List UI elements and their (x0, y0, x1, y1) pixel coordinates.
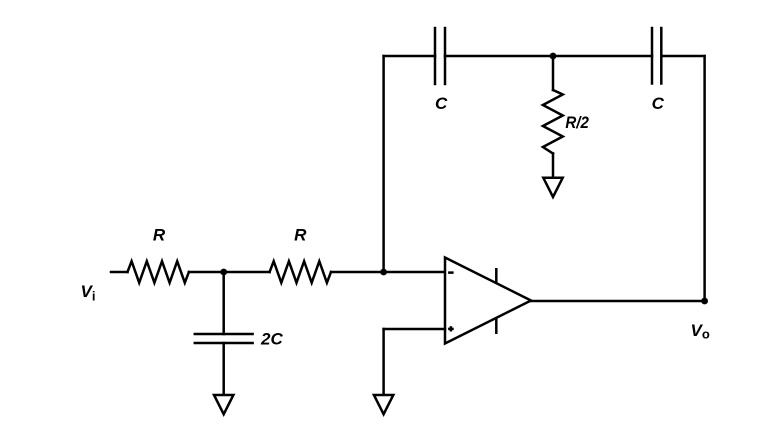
op-amp U1 (445, 258, 531, 344)
wire: node A to R2 (224, 271, 270, 274)
wire: 2C down to ground (222, 343, 225, 395)
wire: R1 to node A (189, 271, 224, 274)
wire: input stub from Vi (111, 271, 128, 274)
node A (junction of R1, R2, 2C) (220, 269, 227, 276)
ground (below R/2) (543, 178, 562, 197)
wire: R/2 down to ground (552, 154, 555, 178)
svg-text:C: C (652, 94, 665, 113)
ground (below op-amp + input) (374, 395, 393, 414)
wire: op-amp output to node D (531, 300, 705, 303)
svg-text:C: C (435, 94, 448, 113)
wire: right feedback rail (top rail down to output node) (703, 56, 706, 301)
op-amp positive supply pin (495, 268, 498, 284)
wire: node C down to R/2 (552, 56, 555, 90)
wire: top rail right segment (661, 55, 704, 58)
wire: op-amp non-inverting input (384, 328, 445, 331)
resistor R3 (R/2) (543, 90, 563, 154)
capacitor 2C (195, 334, 253, 343)
svg-text:2C: 2C (260, 330, 283, 349)
op-amp negative supply pin (495, 318, 498, 334)
resistor R1 (128, 261, 189, 283)
wire: node B to op-amp inverting input (384, 271, 445, 274)
ground (below 2C) (214, 395, 233, 414)
wire: top rail left segment (384, 55, 435, 58)
svg-text:R/2: R/2 (565, 113, 589, 132)
svg-text:R: R (294, 226, 307, 245)
node B (junction of R2, left feedback rail, op-amp input) (380, 269, 387, 276)
capacitor C2 (652, 28, 661, 84)
wire: non-inverting input down to ground (382, 329, 385, 395)
wire: R2 to node B (331, 271, 384, 274)
resistor R2 (270, 261, 331, 283)
wire: left feedback rail (node B up to top rail) (382, 56, 385, 272)
node D (output junction) (701, 298, 708, 305)
wire: node A down to capacitor 2C (222, 272, 225, 334)
op-amp non-inverting pin marker (+) (448, 326, 454, 331)
node C (junction on top rail with R/2) (550, 53, 557, 60)
wire: top rail middle segment (445, 55, 652, 58)
op-amp inverting pin marker (-) (448, 271, 454, 274)
capacitor C1 (435, 28, 445, 84)
svg-text:R: R (153, 226, 166, 245)
